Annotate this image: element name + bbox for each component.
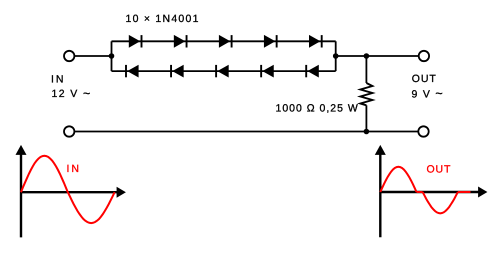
diode D9 [261,65,274,78]
terminal bottom right [418,126,428,136]
svg-text:9 V ~: 9 V ~ [412,87,445,101]
wire left vertical bar [111,41,113,71]
wire to output [336,55,419,57]
right graph x-axis [380,187,487,198]
diode D6 [126,65,139,78]
terminal OUT top [419,51,429,61]
left graph y-axis [16,145,27,238]
diode D8 [216,65,229,78]
node resistor top [364,53,370,59]
output clipped waveform [380,167,470,214]
diode D10 [306,65,319,78]
svg-text:10 × 1N4001: 10 × 1N4001 [126,13,200,25]
diode D3 [219,35,232,48]
node left junction [109,53,115,59]
diode D5 [309,35,322,48]
left graph x-axis [21,187,126,198]
wire input to left junction [75,55,112,57]
svg-text:1000 Ω 0,25 W: 1000 Ω 0,25 W [276,103,359,115]
svg-text:OUT: OUT [427,163,452,175]
resistor R1 [360,56,372,132]
terminal bottom left [64,126,74,136]
svg-text:IN: IN [67,163,82,175]
wire right vertical bar [335,41,337,71]
diode D1 [129,35,142,48]
diode D2 [174,35,187,48]
terminal IN top [64,51,74,61]
node right junction [333,53,339,59]
input sine waveform [21,156,115,223]
wire bottom rail [75,131,419,133]
diode D4 [264,35,277,48]
node resistor bottom [364,129,370,135]
wire top rail [112,40,336,42]
right graph y-axis [375,145,386,237]
svg-text:IN: IN [51,73,66,85]
diode D7 [171,65,184,78]
wire bottom branch rail [112,70,336,72]
svg-text:12 V ~: 12 V ~ [52,87,92,101]
svg-text:OUT: OUT [412,73,437,85]
